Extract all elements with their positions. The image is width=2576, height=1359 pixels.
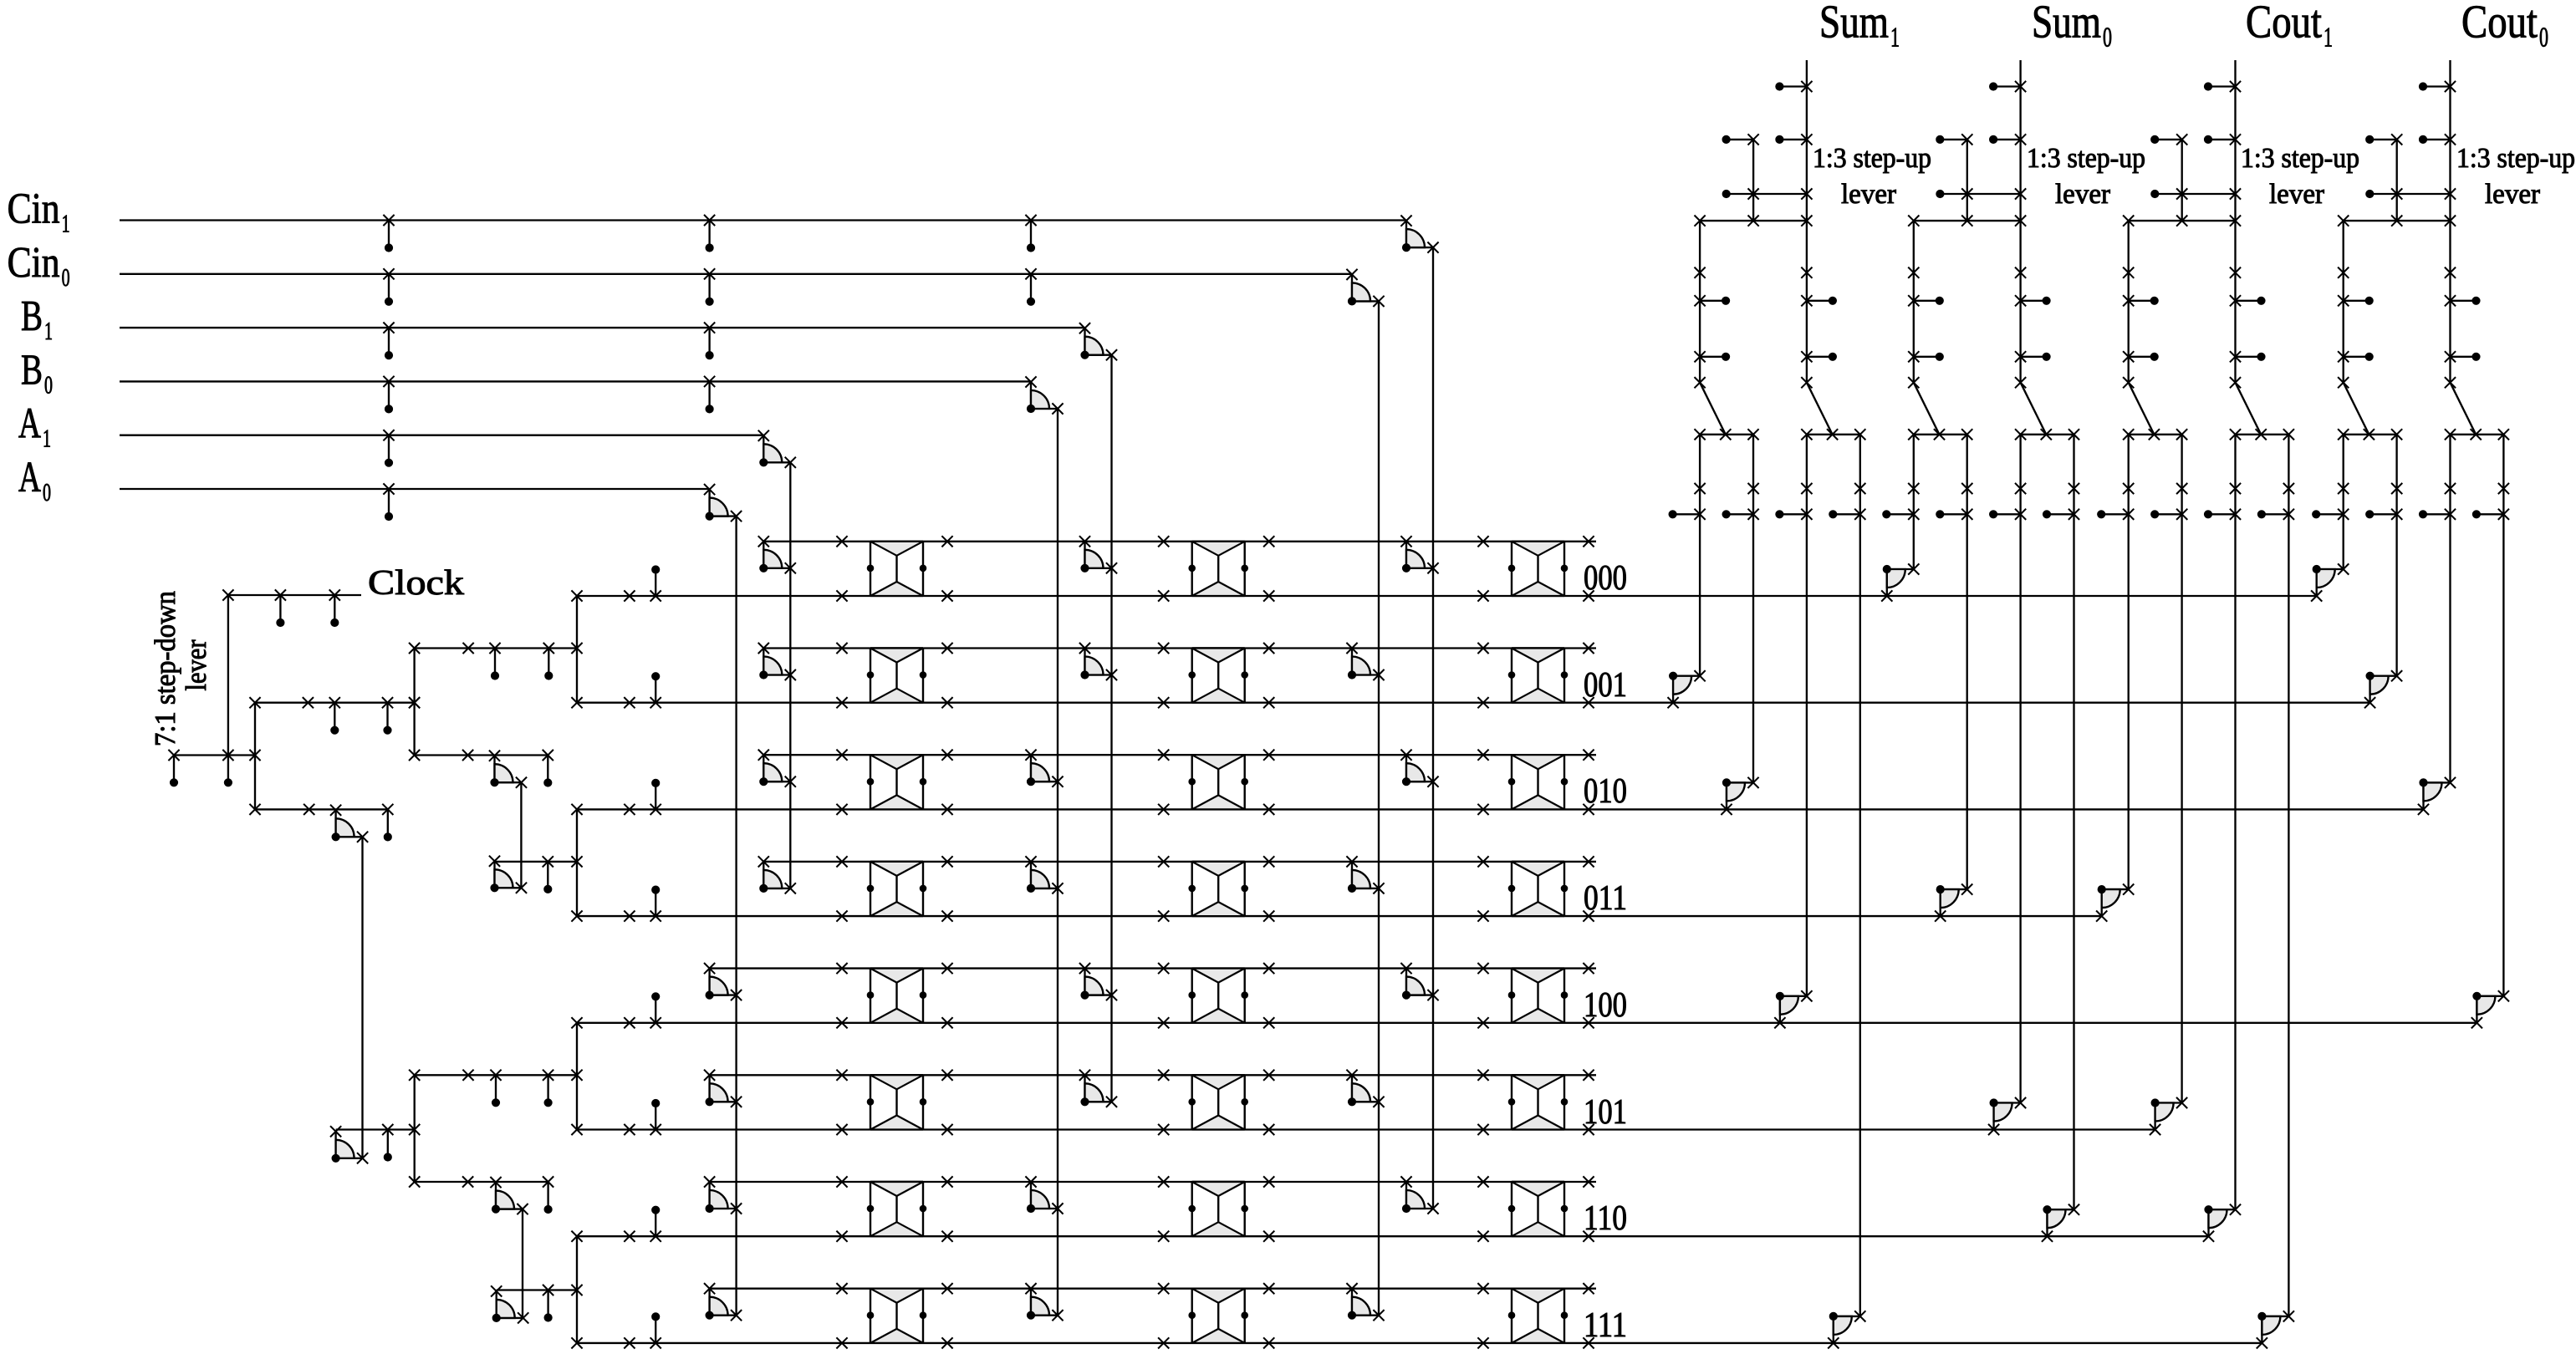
svg-text:lever: lever	[2485, 179, 2541, 210]
svg-text:111: 111	[1584, 1306, 1627, 1345]
svg-text:A: A	[18, 454, 41, 501]
svg-text:0: 0	[44, 369, 53, 399]
svg-text:Cout: Cout	[2461, 0, 2538, 48]
svg-text:0: 0	[43, 477, 51, 506]
svg-text:1:3 step-up: 1:3 step-up	[1813, 143, 1931, 174]
svg-text:100: 100	[1584, 986, 1627, 1025]
svg-text:lever: lever	[2269, 179, 2325, 210]
svg-text:001: 001	[1584, 666, 1627, 705]
svg-text:lever: lever	[2055, 179, 2111, 210]
svg-text:011: 011	[1584, 879, 1627, 918]
svg-text:1: 1	[43, 424, 51, 453]
svg-text:1: 1	[62, 209, 70, 238]
svg-text:101: 101	[1584, 1093, 1627, 1132]
svg-text:0: 0	[62, 262, 70, 292]
svg-text:Sum: Sum	[2032, 0, 2101, 48]
svg-text:lever: lever	[1841, 179, 1897, 210]
svg-text:lever: lever	[180, 639, 212, 690]
svg-text:110: 110	[1584, 1199, 1627, 1238]
svg-text:7:1 step-down: 7:1 step-down	[149, 591, 181, 746]
svg-text:B: B	[21, 293, 43, 340]
svg-text:0: 0	[2539, 23, 2548, 53]
svg-text:000: 000	[1584, 559, 1627, 598]
svg-text:1: 1	[1890, 23, 1900, 53]
svg-text:Cout: Cout	[2246, 0, 2322, 48]
svg-text:010: 010	[1584, 772, 1627, 811]
svg-text:1:3 step-up: 1:3 step-up	[2027, 143, 2145, 174]
svg-text:Cin: Cin	[8, 186, 60, 233]
svg-text:1: 1	[2324, 23, 2333, 53]
svg-text:1:3 step-up: 1:3 step-up	[2456, 143, 2575, 174]
svg-text:Clock: Clock	[368, 564, 464, 603]
svg-text:1: 1	[44, 316, 53, 345]
svg-text:1:3 step-up: 1:3 step-up	[2241, 143, 2359, 174]
svg-text:Cin: Cin	[8, 239, 60, 287]
svg-text:0: 0	[2103, 23, 2112, 53]
svg-text:A: A	[18, 400, 41, 448]
svg-text:B: B	[21, 346, 43, 394]
svg-text:Sum: Sum	[1819, 0, 1889, 48]
